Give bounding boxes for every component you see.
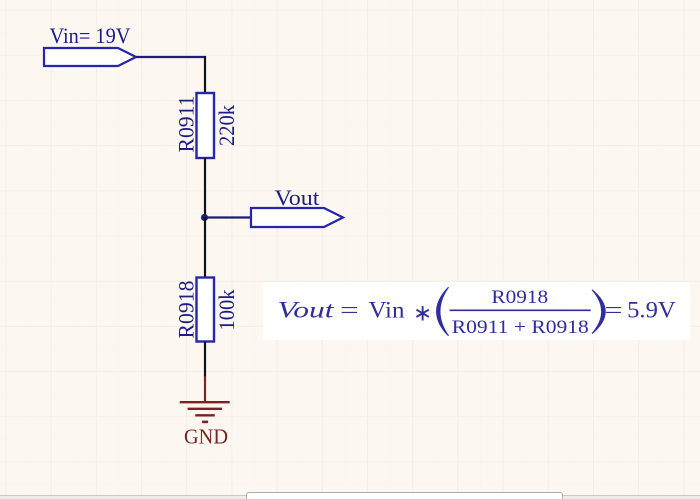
ground stem: [204, 376, 206, 402]
port VOUT shape: [251, 208, 343, 227]
svg-text:5.9V: 5.9V: [627, 298, 676, 323]
svg-text:GND: GND: [184, 425, 228, 449]
wire: junction down to R0918 pin 1 (vertical): [204, 218, 206, 278]
svg-text:100k: 100k: [214, 290, 239, 331]
svg-text:∗: ∗: [413, 301, 432, 326]
resistor R0918 body: [197, 278, 215, 342]
formula left parenthesis: [437, 287, 449, 336]
bottom white popup box: [246, 492, 563, 499]
wire: R0918 pin 2 down to ground (vertical): [204, 342, 206, 378]
wire: corner down to R0911 pin 1 (vertical): [204, 56, 206, 93]
bottom window edge grey line: [0, 495, 700, 497]
svg-text:R0911 + R0918: R0911 + R0918: [452, 317, 589, 338]
svg-text:R0918: R0918: [174, 281, 199, 339]
svg-text:Vin: Vin: [369, 298, 406, 323]
svg-text:R0911: R0911: [174, 96, 199, 153]
svg-text:Vout: Vout: [275, 185, 320, 210]
junction dot (node Vout): [201, 214, 208, 221]
svg-text:=: =: [340, 298, 359, 323]
ground bar 1: [180, 401, 230, 403]
port VIN shape: [44, 48, 136, 66]
ground bar 4: [202, 421, 208, 424]
svg-text:Vin= 19V: Vin= 19V: [50, 23, 131, 48]
wire: R0911 pin 2 down to junction (vertical): [204, 158, 206, 218]
wire: VIN port to corner (horizontal): [136, 56, 206, 58]
svg-text:220k: 220k: [214, 105, 239, 146]
resistor R0911 body: [197, 93, 215, 158]
ground bar 2: [188, 408, 222, 410]
formula fraction bar: [450, 309, 591, 311]
bottom window strip: [0, 496, 700, 499]
svg-text:R0918: R0918: [491, 287, 548, 308]
wire: junction to VOUT port (horizontal): [205, 216, 251, 218]
svg-text:Vout: Vout: [278, 298, 335, 323]
formula right parenthesis: [592, 290, 605, 334]
formula white background box: [263, 282, 690, 340]
ground bar 3: [195, 414, 215, 416]
svg-text:=: =: [605, 298, 623, 323]
